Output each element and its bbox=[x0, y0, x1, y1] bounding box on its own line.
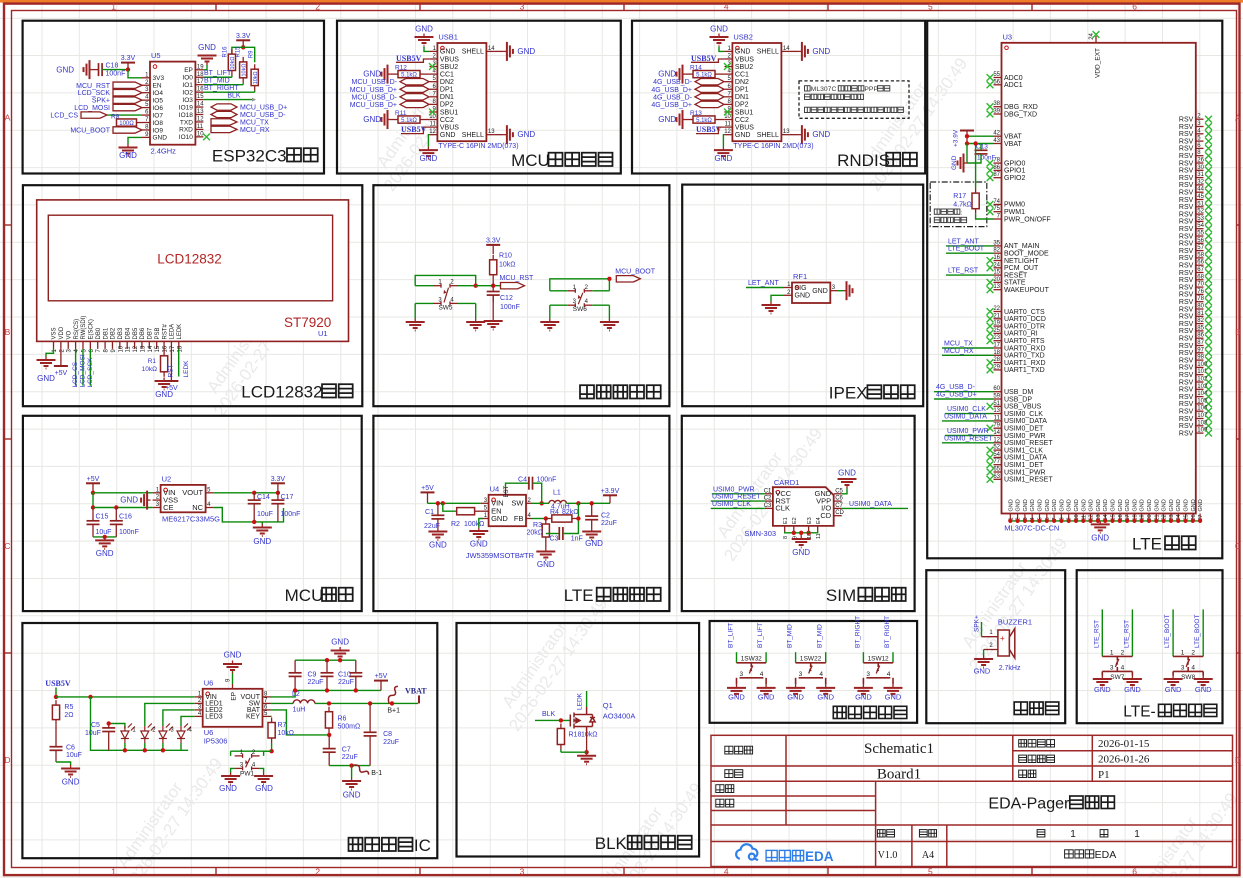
svg-text:NETLIGHT: NETLIGHT bbox=[1004, 258, 1039, 265]
node SW6 out bbox=[607, 277, 611, 281]
svg-text:L2: L2 bbox=[292, 691, 300, 698]
svg-text:GND: GND bbox=[1038, 499, 1044, 511]
svg-text:1uH: 1uH bbox=[293, 707, 306, 714]
function block 系统功能键 bbox=[710, 621, 918, 723]
wire C5 to gnd bbox=[842, 489, 847, 494]
svg-text:LTE_BOOT: LTE_BOOT bbox=[948, 246, 985, 253]
svg-text:C15: C15 bbox=[96, 514, 109, 521]
svg-text:SBU2: SBU2 bbox=[440, 64, 458, 71]
wire C12 bottom bbox=[492, 295, 494, 317]
wire SW5 pin4 bbox=[458, 302, 476, 304]
svg-text:R12: R12 bbox=[395, 65, 407, 72]
svg-text:USB1: USB1 bbox=[438, 33, 458, 42]
node +5V bbox=[91, 491, 95, 495]
resistor R12 bbox=[398, 71, 420, 78]
svg-text:13: 13 bbox=[783, 129, 790, 135]
svg-text:GND: GND bbox=[255, 784, 273, 793]
svg-text:ME6217C33M5G: ME6217C33M5G bbox=[162, 515, 220, 524]
no-connect bbox=[987, 160, 994, 167]
svg-text:25: 25 bbox=[993, 328, 1000, 334]
wire VBAT2 bbox=[967, 143, 994, 145]
svg-text:C3: C3 bbox=[550, 536, 559, 543]
svg-text:86: 86 bbox=[1197, 333, 1204, 339]
svg-text:MCU_RST: MCU_RST bbox=[500, 275, 535, 282]
svg-text:EDA: EDA bbox=[1095, 849, 1117, 861]
wire LED3 pin bbox=[181, 716, 195, 726]
svg-text:GND: GND bbox=[812, 130, 830, 139]
svg-text:Board1: Board1 bbox=[877, 767, 921, 783]
svg-text:GND: GND bbox=[855, 693, 872, 702]
U3 gnd rail junctions bbox=[1008, 519, 1202, 523]
svg-text:10kΩ: 10kΩ bbox=[278, 730, 295, 737]
svg-text:PWM0: PWM0 bbox=[1004, 202, 1025, 209]
svg-text:RXD: RXD bbox=[179, 127, 193, 134]
ground RF1 bbox=[762, 302, 781, 314]
svg-text:PPP: PPP bbox=[864, 86, 878, 93]
wire VOUT to rail bbox=[271, 690, 296, 697]
wire U3 gnd rail bbox=[1010, 520, 1200, 521]
svg-text:GPIO2: GPIO2 bbox=[1004, 175, 1026, 182]
wire caps to ground bbox=[93, 536, 116, 538]
node source bbox=[584, 750, 588, 754]
svg-text:C18: C18 bbox=[106, 63, 119, 70]
wire SW5 gnd left bbox=[414, 303, 416, 318]
node C16 bbox=[114, 505, 118, 509]
svg-text:USIM0_PWR: USIM0_PWR bbox=[713, 486, 755, 493]
svg-text:GND: GND bbox=[37, 374, 55, 383]
svg-text:GND: GND bbox=[1169, 499, 1175, 511]
node sim gnd bbox=[792, 531, 796, 535]
net port LCD_SCK bbox=[113, 90, 142, 96]
resistor R4 bbox=[552, 515, 572, 522]
wire 3.3V to pin1 bbox=[128, 70, 142, 78]
net port MCU_USB_D- bbox=[211, 111, 237, 117]
svg-text:87: 87 bbox=[1197, 340, 1204, 346]
wire R18 bottom bbox=[560, 750, 562, 753]
wire BT_LIFT 2 bbox=[765, 652, 767, 663]
svg-text:+5V: +5V bbox=[165, 385, 178, 392]
ground C2 bbox=[582, 528, 601, 540]
svg-text:RSV: RSV bbox=[1179, 365, 1194, 372]
svg-text:60: 60 bbox=[993, 386, 1000, 392]
svg-text:+5V: +5V bbox=[87, 476, 100, 483]
svg-text:4: 4 bbox=[819, 671, 823, 678]
svg-text:GND: GND bbox=[1165, 685, 1182, 694]
U3 VDD_EXT pin bbox=[1095, 36, 1097, 43]
svg-text:10uF: 10uF bbox=[85, 730, 101, 737]
svg-text:C8: C8 bbox=[383, 731, 392, 738]
svg-text:UART1_TXD: UART1_TXD bbox=[1004, 367, 1045, 374]
svg-text:2: 2 bbox=[1191, 649, 1195, 656]
capacitor C4 bbox=[529, 477, 533, 490]
svg-text:11: 11 bbox=[994, 415, 1001, 421]
wire pin9 GND bbox=[128, 137, 142, 144]
svg-text:75: 75 bbox=[993, 206, 1000, 212]
svg-text:RSV: RSV bbox=[1179, 153, 1194, 160]
capacitor C14 bbox=[248, 493, 261, 522]
node R17 VBAT bbox=[973, 141, 977, 145]
svg-text:1: 1 bbox=[1134, 829, 1140, 840]
svg-text:DP2: DP2 bbox=[440, 102, 454, 109]
svg-text:+5V: +5V bbox=[375, 673, 388, 680]
svg-text:NC: NC bbox=[192, 503, 203, 512]
wire R17 top bbox=[975, 144, 977, 189]
wire SW6 pin4 bbox=[592, 304, 609, 306]
svg-text:DB4: DB4 bbox=[125, 327, 131, 339]
U3 left pins bbox=[994, 77, 1002, 79]
svg-text:LEDK: LEDK bbox=[183, 360, 190, 378]
function block 主控功能键 bbox=[373, 185, 669, 406]
node LED2 bbox=[143, 748, 147, 752]
svg-text:R16: R16 bbox=[223, 46, 229, 58]
resistor R5 bbox=[52, 700, 59, 725]
svg-text:RSV: RSV bbox=[1179, 394, 1194, 401]
svg-text:GND: GND bbox=[658, 115, 676, 124]
no-connect bbox=[1205, 211, 1212, 218]
svg-text:5.1kΩ: 5.1kΩ bbox=[696, 72, 712, 78]
resistor R16 bbox=[228, 49, 235, 75]
svg-text:GND: GND bbox=[420, 154, 438, 163]
svg-text:EDA-Pager: EDA-Pager bbox=[988, 796, 1070, 813]
no-connect bbox=[1205, 335, 1212, 342]
wire pin12 to ground bbox=[428, 135, 429, 147]
svg-text:GND: GND bbox=[219, 784, 237, 793]
svg-text:IO2: IO2 bbox=[182, 89, 193, 96]
ground pin1 bbox=[710, 34, 729, 46]
no-connect bbox=[987, 308, 994, 315]
wire LED2 pin bbox=[163, 710, 195, 726]
node gnd bbox=[103, 535, 107, 539]
U3 bottom GND pin names bbox=[1008, 499, 1204, 520]
svg-text:UART0_DTR: UART0_DTR bbox=[1004, 323, 1045, 330]
svg-text:USB5V: USB5V bbox=[396, 54, 422, 63]
svg-text:B: B bbox=[1235, 327, 1241, 337]
wire VSS to ground bbox=[46, 349, 54, 357]
ground pin1 bbox=[415, 34, 434, 46]
svg-text:RSV: RSV bbox=[1179, 197, 1194, 204]
svg-text:RSV: RSV bbox=[1179, 314, 1194, 321]
svg-text:BLK: BLK bbox=[542, 711, 556, 718]
svg-text:IO9: IO9 bbox=[153, 127, 164, 134]
svg-text:USIM0_DET: USIM0_DET bbox=[1004, 426, 1044, 433]
svg-text:4.7kΩ: 4.7kΩ bbox=[953, 202, 971, 209]
svg-text:3: 3 bbox=[866, 671, 870, 678]
node gnd top bbox=[338, 658, 342, 662]
svg-text:BOOT_MODE: BOOT_MODE bbox=[1004, 251, 1049, 258]
wire cap bottom rail bbox=[295, 689, 381, 691]
svg-text:R7: R7 bbox=[278, 722, 287, 729]
function block LCD12832屏幕 bbox=[23, 185, 362, 406]
U4 BST pin bbox=[505, 488, 507, 495]
svg-text:DB2: DB2 bbox=[111, 327, 117, 339]
node C10 bottom bbox=[325, 688, 329, 692]
svg-text:UART1_RXD: UART1_RXD bbox=[1004, 360, 1046, 367]
svg-text:IO3: IO3 bbox=[182, 97, 193, 104]
svg-text:EN: EN bbox=[153, 83, 162, 90]
net port MCU_USB_D- bbox=[400, 78, 429, 84]
svg-text:EP: EP bbox=[231, 692, 238, 701]
svg-text:C9: C9 bbox=[308, 672, 317, 679]
svg-text:+3.9V: +3.9V bbox=[953, 129, 960, 147]
svg-text:EDA: EDA bbox=[805, 849, 834, 864]
svg-text:BLK: BLK bbox=[595, 834, 628, 853]
svg-text:USIM0_CLK: USIM0_CLK bbox=[947, 406, 986, 413]
wire pin12 to ground bbox=[723, 135, 724, 147]
no-connect bbox=[987, 403, 994, 410]
wire R6 to node bbox=[328, 733, 330, 735]
svg-text:5.1kΩ: 5.1kΩ bbox=[401, 72, 417, 78]
svg-text:LCD_MOSI: LCD_MOSI bbox=[74, 105, 110, 112]
svg-text:BT_MID: BT_MID bbox=[787, 624, 794, 648]
svg-text:USIM0_CLK: USIM0_CLK bbox=[1004, 411, 1043, 418]
svg-text:100kΩ: 100kΩ bbox=[464, 521, 484, 528]
power flag +3.9V bbox=[966, 131, 968, 144]
svg-text:DP2: DP2 bbox=[735, 102, 749, 109]
svg-text:1: 1 bbox=[111, 867, 116, 877]
svg-text:R11: R11 bbox=[395, 110, 407, 117]
svg-text:VBAT: VBAT bbox=[1004, 141, 1022, 148]
no-connect bbox=[987, 323, 994, 330]
power flag +5V bbox=[374, 681, 388, 691]
svg-text:24: 24 bbox=[993, 262, 1000, 268]
svg-text:C7: C7 bbox=[342, 747, 351, 754]
svg-text:43: 43 bbox=[993, 138, 1000, 144]
svg-text:USIM0_DATA: USIM0_DATA bbox=[944, 413, 987, 420]
no-connect bbox=[1205, 218, 1212, 225]
no-connect bbox=[1205, 408, 1212, 415]
svg-text:MCU_USB_D+: MCU_USB_D+ bbox=[350, 87, 397, 94]
function block SIM卡接口 bbox=[682, 416, 915, 611]
node sim gnd2 bbox=[806, 531, 810, 535]
svg-text:39: 39 bbox=[993, 109, 1000, 115]
svg-text:GND: GND bbox=[1132, 499, 1138, 511]
svg-text:GND: GND bbox=[1195, 685, 1212, 694]
svg-text:GND: GND bbox=[491, 514, 508, 523]
resistor R11 bbox=[398, 116, 420, 123]
wires sim bottom bbox=[793, 532, 795, 533]
svg-text:USIM0_PWR: USIM0_PWR bbox=[1004, 433, 1046, 440]
svg-text:4: 4 bbox=[1121, 665, 1125, 672]
svg-text:B: B bbox=[5, 327, 11, 337]
svg-text:LET_ANT: LET_ANT bbox=[748, 280, 779, 287]
svg-text:+3.9V: +3.9V bbox=[601, 488, 620, 495]
svg-text:SW: SW bbox=[511, 499, 524, 508]
svg-text:MCU_USB_D+: MCU_USB_D+ bbox=[240, 105, 287, 112]
svg-text:RSV: RSV bbox=[1179, 292, 1194, 299]
svg-text:RSV: RSV bbox=[1179, 219, 1194, 226]
svg-text:USIM0_DATA: USIM0_DATA bbox=[1004, 418, 1047, 425]
svg-text:2: 2 bbox=[885, 656, 889, 663]
svg-text:LET_ANT: LET_ANT bbox=[948, 238, 979, 245]
no-connect bbox=[1205, 116, 1212, 123]
svg-text:RSV: RSV bbox=[1179, 379, 1194, 386]
svg-text:LTE: LTE bbox=[1132, 535, 1162, 554]
ground pin12 bbox=[714, 147, 733, 159]
no-connect bbox=[1205, 269, 1212, 276]
svg-text:RSV: RSV bbox=[1179, 372, 1194, 379]
svg-text:GND: GND bbox=[1094, 685, 1111, 694]
wire C6 to gnd bbox=[56, 762, 71, 765]
ground Q1 bbox=[577, 752, 596, 764]
wire LED rail bbox=[91, 697, 189, 750]
no-connect bbox=[1205, 255, 1212, 262]
wire VDD to +5V bbox=[60, 349, 62, 366]
svg-text:GND: GND bbox=[1081, 499, 1087, 511]
wire to gnd bbox=[351, 766, 353, 778]
wire EP to gnd bbox=[232, 670, 234, 684]
svg-text:LCD_MOSI: LCD_MOSI bbox=[80, 354, 87, 387]
svg-text:C2: C2 bbox=[764, 496, 772, 502]
svg-text:LTE_BOOT: LTE_BOOT bbox=[1164, 614, 1171, 648]
wire KEY bbox=[271, 715, 272, 717]
svg-text:DB6: DB6 bbox=[140, 327, 146, 339]
svg-text:ML307C: ML307C bbox=[811, 86, 837, 93]
mode config text bbox=[934, 209, 940, 214]
svg-text:USB_DM: USB_DM bbox=[1004, 389, 1033, 396]
wire BT_RIGHT 1 bbox=[862, 652, 864, 663]
svg-text:GND: GND bbox=[1124, 685, 1141, 694]
svg-text:USB2: USB2 bbox=[733, 33, 753, 42]
svg-text:3.3V: 3.3V bbox=[486, 237, 501, 244]
no-connect bbox=[1205, 357, 1212, 364]
svg-text:GND: GND bbox=[253, 537, 271, 546]
wire +5V to VIN bbox=[93, 492, 153, 494]
svg-text:MCU: MCU bbox=[285, 586, 324, 605]
svg-text:VBUS: VBUS bbox=[440, 56, 459, 63]
wire LCD_CS bbox=[107, 114, 142, 116]
wire SW6 loop bbox=[550, 279, 610, 291]
svg-text:81: 81 bbox=[1197, 311, 1204, 317]
switch PW1 bbox=[235, 754, 260, 771]
net port MCU_TX bbox=[211, 119, 237, 125]
U4 pins bbox=[481, 502, 489, 504]
wire to gnd bbox=[800, 533, 802, 536]
ground U5 bbox=[119, 144, 138, 156]
wire BT_MID 2 bbox=[825, 652, 827, 663]
svg-text:SHELL: SHELL bbox=[757, 132, 779, 139]
node cap3 bottom bbox=[354, 688, 358, 692]
svg-text:GND: GND bbox=[1045, 499, 1051, 511]
node C2 bbox=[590, 501, 594, 505]
svg-text:RSV: RSV bbox=[1179, 387, 1194, 394]
svg-text:22uF: 22uF bbox=[383, 739, 399, 746]
svg-text:GND: GND bbox=[440, 132, 456, 139]
svg-text:IO5: IO5 bbox=[153, 97, 164, 104]
switch SW5 bbox=[433, 284, 458, 306]
ground SW8 right bbox=[1194, 676, 1213, 688]
net port MCU_USB_D- bbox=[400, 94, 429, 100]
svg-text:R5: R5 bbox=[64, 704, 73, 711]
svg-text:16: 16 bbox=[163, 345, 169, 352]
svg-text:15: 15 bbox=[155, 345, 161, 352]
svg-text:10kΩ: 10kΩ bbox=[142, 366, 157, 373]
svg-text:11: 11 bbox=[816, 533, 822, 539]
svg-text:GND: GND bbox=[838, 469, 856, 478]
svg-text:SBU1: SBU1 bbox=[440, 109, 458, 116]
svg-text:4G_USB_D-: 4G_USB_D- bbox=[653, 94, 693, 101]
node USB5V bbox=[54, 695, 58, 699]
no-connect bbox=[987, 167, 994, 174]
net flag VBAT bbox=[418, 695, 420, 703]
svg-text:SW7: SW7 bbox=[1110, 674, 1124, 681]
no-connect bbox=[1205, 298, 1212, 305]
svg-text:10kΩ: 10kΩ bbox=[499, 262, 516, 269]
svg-text:BT_RIGHT: BT_RIGHT bbox=[854, 616, 861, 648]
svg-text:14: 14 bbox=[148, 345, 154, 352]
svg-text:22: 22 bbox=[993, 306, 1000, 312]
resistor R1 bbox=[161, 351, 168, 377]
svg-text:LCD_SCK: LCD_SCK bbox=[87, 357, 94, 388]
svg-text:54: 54 bbox=[993, 452, 1000, 458]
wire VBAT1 bbox=[967, 135, 994, 137]
svg-text:4G_USB_D-: 4G_USB_D- bbox=[936, 384, 976, 391]
svg-text:5.1kΩ: 5.1kΩ bbox=[696, 118, 712, 124]
function block MCU电源 bbox=[23, 416, 362, 611]
svg-text:RSV: RSV bbox=[1179, 175, 1194, 182]
svg-text:GND: GND bbox=[153, 135, 168, 142]
LTE module U3 bbox=[1002, 43, 1196, 514]
svg-text:PW1: PW1 bbox=[240, 770, 254, 777]
function block ESP32C3主控 bbox=[23, 21, 324, 174]
svg-text:2: 2 bbox=[315, 2, 320, 12]
wire SW6 pin3 bbox=[550, 304, 568, 306]
svg-text:EP: EP bbox=[184, 67, 193, 74]
svg-text:D: D bbox=[4, 755, 10, 765]
wire LEDK bbox=[178, 349, 180, 377]
svg-text:GND: GND bbox=[974, 667, 991, 676]
svg-text:15: 15 bbox=[993, 270, 1000, 276]
svg-text:GND: GND bbox=[1140, 499, 1146, 511]
svg-text:USB5V: USB5V bbox=[401, 125, 427, 134]
USB2 SHELL pins bbox=[781, 50, 789, 52]
svg-text:67: 67 bbox=[1197, 267, 1204, 273]
ground SW3 right bbox=[757, 684, 776, 696]
svg-text:USIM0_PWR: USIM0_PWR bbox=[947, 428, 989, 435]
node VIN rail bbox=[88, 695, 92, 699]
node C8 bbox=[368, 701, 372, 705]
node FB bbox=[544, 516, 548, 520]
svg-text:B+1: B+1 bbox=[387, 708, 400, 715]
svg-text:85: 85 bbox=[1197, 325, 1204, 331]
wire R16 to BT_LIFT bbox=[231, 76, 233, 78]
wire LEDA to +5V bbox=[170, 349, 172, 381]
svg-text:DB0: DB0 bbox=[96, 327, 102, 339]
svg-text:15: 15 bbox=[197, 94, 204, 100]
ground SIM bbox=[792, 536, 811, 548]
svg-text:SW1: SW1 bbox=[871, 656, 885, 663]
svg-text:3: 3 bbox=[1181, 665, 1185, 672]
ground C14 C17 bbox=[253, 524, 272, 536]
U6 pins bbox=[195, 696, 203, 698]
IPEX socket RF1 bbox=[792, 283, 830, 304]
svg-text:14: 14 bbox=[197, 102, 204, 108]
U6 EP pin bbox=[232, 684, 234, 689]
ground SW5 left bbox=[406, 319, 425, 331]
ground buzzer bbox=[974, 656, 993, 668]
power flag +5V bbox=[421, 492, 435, 503]
svg-text:USIM0_RESET: USIM0_RESET bbox=[712, 494, 761, 501]
svg-text:SPK+: SPK+ bbox=[974, 615, 981, 632]
wire R8 to pin bbox=[137, 122, 143, 124]
wire R3 to ground bbox=[545, 542, 547, 548]
svg-text:4: 4 bbox=[1191, 665, 1195, 672]
svg-text:ANT_MAIN: ANT_MAIN bbox=[1004, 243, 1039, 250]
svg-text:2: 2 bbox=[1121, 649, 1125, 656]
svg-text:BT_RIGHT: BT_RIGHT bbox=[884, 616, 891, 648]
no-connect bbox=[724, 63, 731, 70]
svg-text:RF1: RF1 bbox=[793, 272, 807, 281]
ground R14 bbox=[677, 65, 687, 84]
